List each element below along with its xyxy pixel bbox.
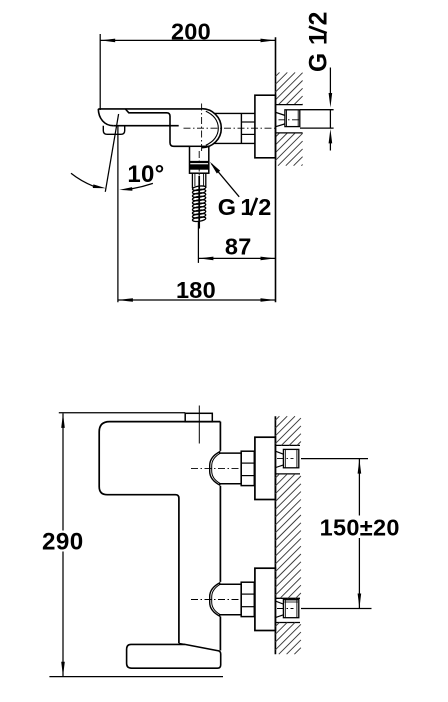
svg-text:180: 180 [176, 277, 216, 303]
G 1/2 dimension extension lines [300, 109, 334, 111]
union nut [241, 582, 254, 616]
connector black band [189, 164, 209, 169]
threaded shank smooth top [191, 173, 193, 188]
valve horizontal centerline [184, 127, 276, 129]
wall pipe cone (top drawing) [276, 112, 285, 126]
white mask behind 290 [42, 531, 84, 552]
wall hole edges [275, 597, 300, 599]
wall hole edges [275, 444, 300, 446]
union dome (inner arc) [212, 453, 221, 483]
cartridge cap circle (right half) [202, 109, 222, 148]
wall hole edges (top drawing) [276, 104, 303, 106]
top drawing: side view of wall-mounted bath mixer [49, 34, 371, 677]
body outline (front view) [99, 422, 220, 644]
wall face line (top drawing) [275, 37, 277, 302]
10 degree: right arc with arrowhead [132, 183, 153, 188]
wall pipe hex nut [283, 449, 298, 467]
G1/2 thread coil [192, 185, 206, 222]
dimension 200: extension line left [99, 34, 101, 110]
escutcheon plate [255, 568, 276, 630]
escutcheon plate (top drawing) [255, 95, 276, 158]
wall pipe hex nut (top drawing) [285, 110, 300, 127]
svg-text:2: 2 [258, 194, 271, 220]
svg-text:G 1: G 1 [218, 194, 254, 220]
stub centerline [198, 406, 200, 444]
upper union extension line for 150 dimension [301, 458, 368, 460]
svg-text:200: 200 [171, 18, 211, 44]
valve vertical centerline [199, 104, 201, 177]
union horizontal centerline [191, 599, 241, 601]
spout rounded left end [98, 109, 113, 126]
wall pipe cone [276, 451, 284, 467]
union dome (outer arc) [210, 583, 221, 617]
pipe to wall: top and bottom lines [215, 112, 255, 114]
wall pipe cone [276, 601, 284, 617]
dimension 87: extension line from thread centerline [197, 221, 199, 263]
connector ring line [190, 161, 209, 163]
wall hatching upper patch (top drawing) [276, 72, 303, 165]
dimension 200: dimension line [100, 39, 275, 41]
hose connector block [190, 146, 209, 173]
aerator outlet under spout [103, 126, 124, 135]
escutcheon plate [255, 437, 276, 499]
G 1/2 leader line to thread [212, 164, 240, 197]
dimension 290: top extension line [59, 412, 186, 414]
lower union extension line for 150 dimension [301, 608, 372, 610]
column bottom tick [179, 643, 185, 644]
union nut [241, 451, 254, 485]
cartridge cap inner arc [206, 111, 219, 145]
white mask behind 150+-20 [318, 516, 401, 539]
wall face line (bottom drawing) [274, 416, 276, 654]
spout bottom line [113, 125, 179, 127]
10 degree: left arc with arrowhead [71, 173, 94, 186]
svg-text:10°: 10° [127, 161, 164, 188]
union barrel [219, 452, 241, 454]
pipe/nut divider [240, 113, 242, 143]
union dome (inner arc) [212, 584, 221, 615]
10 degree: vertical reference line / 180 extension [117, 126, 119, 302]
wall pipe hex nut [284, 600, 298, 603]
thread axis line (solid) [198, 176, 200, 229]
dimension 200: left arrowhead [101, 39, 116, 43]
union horizontal centerline [191, 467, 241, 469]
G 1/2 dimension vertical line + arrows [329, 68, 331, 97]
faucet lever/top line [98, 108, 201, 110]
dimension 290: dimension line [62, 413, 64, 676]
dimension 150+-20: dimension line with arrows [358, 459, 360, 609]
dimension 200: right arrowhead [261, 39, 276, 43]
dimension 290: bottom extension line [49, 676, 223, 678]
wall pipe centerline (top drawing) [279, 119, 302, 121]
svg-text:150±20: 150±20 [320, 515, 400, 541]
svg-text:290: 290 [42, 529, 84, 556]
union barrel [219, 583, 241, 585]
top connector stub rect [185, 413, 212, 422]
dimension 87: dimension line [198, 257, 275, 259]
wall hatching (bottom drawing) [275, 416, 301, 654]
pipe centerline cross [277, 605, 294, 612]
10 degree: tilted lever line [105, 114, 118, 192]
union dome (outer arc) [210, 451, 221, 485]
svg-text:2: 2 [306, 12, 333, 26]
base / spout block [127, 644, 221, 668]
pipe centerline cross [277, 455, 294, 462]
svg-text:87: 87 [225, 234, 252, 260]
backnut facet lines [241, 121, 255, 123]
body right edge segments [219, 422, 221, 451]
svg-text:G 1: G 1 [306, 31, 333, 72]
dimension 180: dimension line [118, 299, 276, 301]
body/lever lower edge with rounded front [125, 109, 189, 146]
